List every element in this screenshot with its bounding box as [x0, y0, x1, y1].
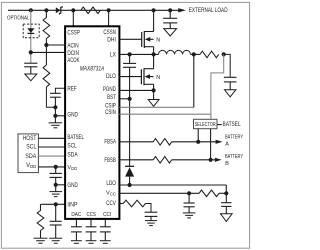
pin label REF	[67, 87, 77, 93]
svg-text:B: B	[225, 161, 229, 167]
node GND1	[53, 114, 57, 118]
capacitor C-VDD	[50, 173, 62, 177]
capacitor C-load	[163, 18, 177, 23]
wire Q2 drain	[153, 54, 155, 68]
wire divider top lead	[45, 10, 47, 17]
ground REF	[49, 123, 63, 128]
wire BST	[119, 98, 129, 100]
wire VDD	[38, 166, 65, 168]
svg-text:SDA: SDA	[25, 154, 36, 160]
wire adapter input rail	[8, 9, 178, 11]
pin label LX	[110, 52, 116, 58]
svg-text:CSIN: CSIN	[105, 110, 116, 116]
node DCIN	[29, 50, 33, 54]
resistor RS2 charge sense	[200, 51, 219, 58]
svg-text:DHI: DHI	[107, 37, 116, 43]
resistor RS1 input sense	[81, 7, 101, 14]
capacitor C-LDO	[221, 203, 231, 207]
pin label DAC	[71, 212, 81, 218]
diode D1 Schottky input	[56, 6, 62, 15]
ground VDD cap	[49, 192, 62, 197]
svg-text:GND: GND	[67, 113, 78, 119]
capacitor C-REF	[50, 93, 61, 97]
transistor Q1 high-side N-FET	[142, 31, 154, 48]
pin label FBSA	[104, 140, 116, 146]
wire divider mid lead	[45, 39, 47, 46]
label SELECTOR	[195, 122, 216, 128]
pin label IINP	[67, 202, 77, 208]
wire CCI stub	[104, 219, 106, 226]
node CSSN	[107, 8, 111, 12]
svg-text:LDO: LDO	[106, 181, 116, 187]
ground CCS cap	[86, 241, 97, 244]
svg-text:FBSA: FBSA	[104, 140, 116, 146]
ground CCV cap	[145, 221, 157, 226]
capacitor C-CCS	[86, 227, 97, 232]
pin label CCS	[87, 212, 97, 218]
svg-text:EXTERNAL LOAD: EXTERNAL LOAD	[189, 8, 228, 14]
pin label SDA	[67, 153, 77, 159]
resistor R-FBSB	[153, 157, 172, 164]
svg-text:SCL: SCL	[26, 145, 37, 151]
box HOST	[18, 134, 38, 173]
arrow battery A	[216, 140, 223, 144]
ground LDO cap	[221, 214, 233, 222]
label SCL host	[26, 145, 37, 151]
node battery B	[209, 158, 213, 162]
wire diode anode lead	[129, 177, 131, 185]
capacitor C-CCI	[100, 227, 111, 232]
wire SDA	[38, 155, 65, 157]
wire DLO	[119, 76, 141, 78]
op-amp U1 MAX8731A box	[65, 26, 119, 219]
svg-text:SELECTOR: SELECTOR	[195, 122, 216, 128]
label N Q2	[156, 75, 160, 81]
transistor Q2 low-side N-FET	[141, 68, 153, 85]
svg-text:REF: REF	[67, 87, 77, 93]
label BATTERY A	[225, 135, 243, 148]
capacitor C-IINP	[50, 221, 62, 225]
node GND2	[54, 183, 58, 187]
wire CCI cap stem	[104, 232, 106, 241]
node PGND	[152, 88, 156, 92]
node battery A	[196, 140, 200, 144]
wire REF cap stem	[54, 97, 56, 116]
node CSSP	[71, 8, 75, 12]
svg-text:ACOK: ACOK	[67, 58, 79, 64]
pin label PGND	[103, 87, 116, 93]
resistor R-FBSA	[153, 139, 172, 146]
svg-text:DAC: DAC	[71, 212, 81, 218]
node REF/divider	[53, 105, 57, 109]
node LDO-diode	[128, 183, 132, 187]
wire BST-LDO rail	[129, 99, 131, 167]
node BST	[128, 97, 132, 101]
capacitor C-BST	[123, 63, 136, 67]
node VCC cap tap	[187, 191, 191, 195]
svg-text:N: N	[156, 75, 160, 81]
resistor R-CCV	[123, 200, 145, 207]
wire DCIN	[31, 51, 65, 53]
ground load cap	[164, 29, 177, 36]
wire GND2	[56, 184, 65, 186]
label OPTIONAL	[7, 15, 30, 21]
wire LDO cap stems	[225, 193, 227, 214]
wire SCL	[38, 146, 65, 148]
pin label CCI	[103, 212, 112, 218]
wire BATSEL	[38, 137, 65, 139]
ground DCIN cap	[25, 74, 37, 81]
svg-text:CSIP: CSIP	[105, 103, 116, 109]
wire DHI	[119, 38, 141, 40]
arrow battery B	[215, 158, 222, 162]
wire divider mid lead 2	[45, 45, 47, 65]
wire LDO elbow	[225, 185, 227, 193]
wire inductor out	[191, 53, 201, 55]
wire gnd stem	[54, 116, 56, 123]
node CSIN out	[222, 52, 226, 56]
svg-text:MAX8731A: MAX8731A	[80, 66, 105, 72]
node IINP	[54, 202, 58, 206]
wire out cap elbow	[224, 54, 231, 77]
ground IINP res	[34, 238, 48, 243]
pin label CSSP	[67, 30, 80, 36]
svg-text:OPTIONAL: OPTIONAL	[7, 15, 30, 21]
label BATTERY B	[225, 154, 243, 167]
dashed box optional	[23, 24, 39, 38]
wire VCC cap stems	[188, 193, 190, 213]
pin label BST	[107, 95, 116, 101]
wire PGND	[119, 89, 153, 91]
capacitor C-VCC	[184, 203, 195, 207]
svg-text:BATSEL: BATSEL	[67, 135, 84, 141]
wire selector-batsel dash	[217, 124, 222, 126]
wire VDD cap stems	[55, 167, 57, 192]
pin label CCV	[106, 201, 116, 207]
wire LDO res lead	[219, 192, 226, 194]
svg-text:CSSN: CSSN	[103, 30, 116, 36]
wire IINP res stem	[40, 231, 42, 239]
wire Q1 source	[153, 47, 155, 55]
pin label ACIN	[67, 44, 78, 50]
wire GND1	[55, 115, 65, 117]
wire LX	[119, 53, 158, 55]
label VDD host	[26, 163, 36, 169]
svg-text:CCS: CCS	[87, 212, 97, 218]
wire battery B	[172, 159, 216, 161]
diode D2 optional	[27, 28, 34, 33]
label BATSEL net	[223, 121, 242, 128]
wire CSIN	[119, 113, 210, 115]
pin label GND2	[67, 183, 78, 189]
wire FBSB	[119, 159, 153, 161]
wire CSSN stub	[108, 10, 110, 26]
wire LDO	[119, 184, 226, 186]
label HOST	[23, 136, 37, 142]
resistor R-IINP	[37, 211, 44, 231]
svg-text:VCC: VCC	[106, 191, 116, 197]
node CSIP out	[192, 52, 196, 56]
svg-text:DCIN: DCIN	[67, 51, 79, 57]
label N Q1	[156, 37, 160, 43]
wire IINP	[41, 203, 66, 205]
wire battery A	[172, 141, 216, 143]
wire FBSA	[119, 141, 153, 143]
svg-text:A: A	[225, 141, 229, 147]
wire CCV cap stem	[150, 216, 152, 220]
wire selector leg A	[197, 129, 199, 142]
wire CSSP stub	[72, 10, 74, 26]
wire CCS cap stem	[90, 232, 92, 241]
svg-text:IINP: IINP	[67, 202, 77, 208]
svg-text:VDD: VDD	[26, 163, 36, 169]
wire VCC	[119, 192, 199, 194]
wire Q1 drain	[153, 10, 155, 31]
svg-text:BATTERY: BATTERY	[225, 154, 243, 160]
wire CCS stub	[90, 219, 92, 226]
label MAX8731A	[80, 66, 105, 72]
node LX-FETs	[152, 52, 156, 56]
wire ACIN	[46, 44, 65, 46]
pin label DLO	[106, 74, 116, 80]
svg-text:CCI: CCI	[103, 212, 112, 218]
label EXTERNAL LOAD	[189, 8, 228, 14]
svg-text:LX: LX	[110, 52, 116, 58]
resistor R-ACIN-top	[43, 18, 50, 39]
resistor R-VCC	[199, 190, 219, 197]
node LDO cap tap	[224, 191, 228, 195]
wire DAC cap stem	[75, 232, 77, 241]
wire CSIN riser	[211, 54, 224, 114]
svg-text:VDD: VDD	[67, 165, 77, 171]
svg-text:ACIN: ACIN	[67, 44, 78, 50]
arrow to external load	[178, 8, 186, 12]
wire CSIP	[119, 106, 193, 108]
svg-text:CSSP: CSSP	[67, 30, 80, 36]
svg-text:BATSEL: BATSEL	[223, 121, 242, 128]
ground DAC cap	[71, 241, 82, 244]
wire IINP res lead	[40, 204, 42, 210]
wire load cap stems	[169, 10, 171, 28]
pin label LDO	[106, 181, 116, 187]
svg-text:HOST: HOST	[23, 136, 37, 142]
svg-text:CCV: CCV	[106, 201, 116, 207]
wire IINP cap stems	[55, 204, 57, 238]
svg-text:N: N	[156, 37, 160, 43]
node LX-BST cap	[128, 52, 132, 56]
wire out cap stem	[229, 82, 231, 90]
wire REF	[55, 88, 65, 93]
pin label DHI	[107, 37, 116, 43]
wire BST rail upper	[129, 54, 131, 98]
pin label CSSN	[103, 30, 116, 36]
pin label ACOK	[67, 58, 79, 64]
pin label SCL	[67, 143, 77, 149]
wire selector leg B	[210, 129, 212, 160]
ground CCI cap	[100, 241, 111, 244]
svg-text:PGND: PGND	[103, 87, 116, 93]
svg-text:SCL: SCL	[67, 143, 77, 149]
resistor R-ACIN-bottom	[43, 65, 50, 87]
ground PGND	[148, 100, 159, 107]
wire DAC stub	[75, 219, 77, 226]
wire optional branch	[30, 10, 32, 63]
wire CSIP riser	[193, 54, 195, 107]
pin label VCC	[106, 191, 116, 197]
wire CCV elbow	[146, 204, 152, 213]
wire selector feed	[210, 114, 212, 119]
diode D3 LDO-BST	[125, 166, 134, 176]
pin label GND1	[67, 113, 78, 119]
node VDD cap tap	[54, 165, 58, 169]
inductor L1	[159, 50, 191, 54]
wire CCV lead	[119, 203, 123, 205]
ground IINP cap	[49, 238, 62, 243]
pin label CSIN	[105, 110, 116, 116]
pin label BATSEL	[67, 135, 84, 141]
svg-text:BST: BST	[107, 95, 116, 101]
capacitor C-out	[224, 77, 237, 82]
node optional-diode tap	[29, 8, 33, 12]
wire DCIN cap stem	[30, 67, 32, 74]
label SDA host	[25, 154, 36, 160]
wire divider bottom elbow	[46, 87, 55, 107]
ground VCC cap	[183, 213, 196, 218]
border frame	[1, 2, 249, 248]
pin label FBSB	[104, 158, 116, 164]
capacitor C-DCIN	[24, 63, 37, 67]
pin label DCIN	[67, 51, 79, 57]
node ACIN tap	[44, 43, 48, 47]
node Q1 drain	[152, 8, 156, 12]
wire Q2 source	[153, 84, 155, 90]
capacitor C-DAC	[71, 227, 82, 232]
svg-text:SDA: SDA	[67, 153, 77, 159]
box SELECTOR	[194, 119, 218, 128]
node ACIN-divider tap	[44, 8, 48, 12]
svg-text:FBSB: FBSB	[104, 158, 116, 164]
wire PGND stem	[153, 90, 155, 99]
ground out cap	[225, 90, 236, 97]
svg-text:BATTERY: BATTERY	[225, 135, 243, 141]
capacitor C-CCV	[145, 212, 158, 216]
svg-text:DLO: DLO	[106, 74, 116, 80]
pin label VDD	[67, 165, 77, 171]
pin label CSIP	[105, 103, 116, 109]
node load cap tap	[168, 8, 172, 12]
svg-text:GND: GND	[67, 183, 78, 189]
